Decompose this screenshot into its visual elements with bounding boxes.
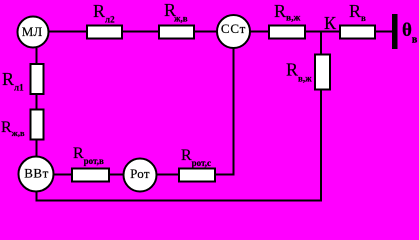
svg-text:МЛ: МЛ (22, 24, 43, 39)
svg-text:ВВт: ВВт (24, 166, 49, 181)
svg-text:ССт: ССт (221, 21, 246, 36)
svg-text:К: К (324, 13, 337, 33)
svg-text:Рот: Рот (130, 166, 150, 181)
